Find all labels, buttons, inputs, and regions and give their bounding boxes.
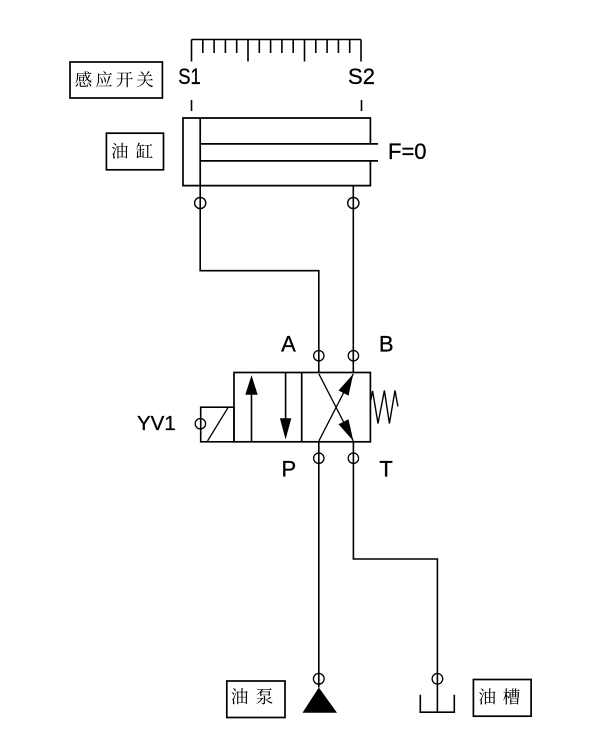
label YV1 [137, 412, 176, 435]
tank port circle [432, 674, 443, 685]
valve left position down-flow arrow [280, 373, 291, 440]
piston rod [200, 144, 378, 161]
label port T [379, 457, 392, 482]
port B circle [348, 351, 358, 361]
hydraulic cylinder body [183, 118, 370, 186]
load label F=0 [388, 139, 427, 164]
solenoid pilot circle [195, 419, 205, 429]
port P circle [314, 453, 324, 463]
valve right position crossed path P to B with arrow [319, 374, 353, 441]
valve body (4/2 directional valve) [234, 373, 370, 442]
wire: cylinder left port to valve port A [200, 186, 319, 373]
valve right position crossed path A to T with arrow [319, 374, 353, 441]
valve left position up-flow arrow [245, 375, 257, 442]
label port A [281, 332, 296, 357]
induction switch label box (感应开关) [70, 62, 162, 98]
oil cylinder label box (油缸) [106, 133, 163, 170]
svg-text:S1: S1 [178, 64, 201, 89]
label port P [282, 457, 297, 482]
svg-text:T: T [379, 457, 392, 482]
cylinder left port circle [195, 197, 206, 208]
sensor label S2 [348, 64, 375, 89]
sensor label S1 [178, 64, 201, 89]
svg-text:F=0: F=0 [388, 139, 427, 164]
oil pump label box (油泵) [227, 681, 285, 718]
wire: valve port P to pump [318, 442, 320, 688]
svg-text:P: P [282, 457, 297, 482]
svg-text:B: B [379, 332, 394, 357]
oil tank label box (油槽) [473, 680, 531, 717]
port A circle [314, 351, 324, 361]
valve position divider [301, 373, 303, 442]
pump symbol (filled triangle) [303, 688, 338, 713]
svg-text:A: A [281, 332, 296, 357]
solenoid YV1 box [201, 407, 234, 442]
return spring [371, 391, 398, 424]
ruler scale [192, 40, 362, 62]
label port B [379, 332, 394, 357]
cylinder piston [199, 118, 201, 186]
wire: valve port T to tank [353, 442, 437, 712]
dashed leader below S2 [361, 100, 363, 111]
pump port circle [313, 673, 324, 684]
svg-text:S2: S2 [348, 64, 375, 89]
svg-text:YV1: YV1 [137, 412, 176, 435]
oil tank symbol [420, 695, 454, 712]
dashed leader below S1 [191, 100, 193, 111]
port T circle [348, 453, 358, 463]
wire: cylinder right port to valve port B [352, 186, 354, 373]
cylinder right port circle [348, 197, 359, 208]
